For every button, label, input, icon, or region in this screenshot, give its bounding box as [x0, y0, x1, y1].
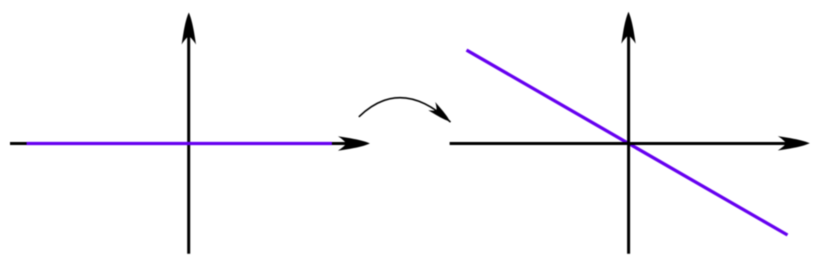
right x-axis — [450, 142, 792, 145]
curved map arrow — [359, 98, 450, 122]
left purple segment — [27, 142, 332, 145]
left y-axis — [187, 35, 190, 254]
right y-axis arrowhead — [621, 12, 635, 44]
left x-axis — [10, 142, 352, 145]
left x-axis arrowhead — [338, 136, 370, 150]
curved map arrowhead — [428, 102, 453, 126]
left y-axis arrowhead — [182, 13, 196, 45]
right x-axis arrowhead — [778, 136, 810, 150]
right y-axis — [627, 35, 630, 254]
right purple line — [467, 50, 788, 235]
